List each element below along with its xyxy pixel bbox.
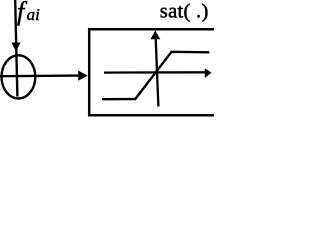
svg-text:sat( .): sat( .): [160, 0, 209, 22]
vertical axis of graph: [156, 36, 159, 107]
summing junction circle: [2, 55, 36, 98]
wire: vertical input line into summing junction: [15, 0, 17, 97]
arrowhead up on vertical axis: [150, 31, 160, 40]
saturation block box (open right side): [89, 29, 214, 115]
arrowhead right into box: [78, 71, 87, 81]
svg-text:ai: ai: [27, 5, 40, 24]
saturation curve: [102, 52, 209, 99]
arrowhead down into summing junction: [11, 43, 20, 52]
wire: horizontal line through junction to box: [0, 74, 79, 77]
horizontal axis of graph: [104, 71, 206, 74]
arrowhead right on horizontal axis: [205, 68, 212, 78]
